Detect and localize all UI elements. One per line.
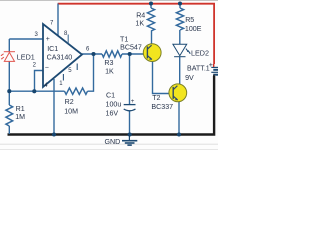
transistor Q2 BC337 (169, 84, 187, 102)
svg-text:+: + (46, 36, 50, 43)
svg-text:T2: T2 (152, 94, 160, 102)
wire output pin6 (82, 53, 102, 55)
label T2 (151, 94, 173, 111)
wire V+ top rail (red) (58, 4, 214, 64)
op-amp U1 CA3140 triangle (43, 24, 82, 87)
wire LED1 bottom to node (8, 61, 10, 91)
svg-text:LED1: LED1 (17, 53, 35, 62)
transistor Q1 BC547 (143, 44, 161, 62)
wire R3 to T1 base (122, 53, 147, 55)
label C1 value (106, 92, 122, 118)
svg-text:C1: C1 (106, 92, 115, 100)
resistor R1 (6, 105, 13, 126)
label R1 value (15, 105, 25, 121)
svg-text:+: + (131, 98, 135, 105)
capacitor C1 (124, 105, 136, 111)
wire C1 top (129, 54, 131, 104)
label R2 value (64, 98, 78, 116)
wire pin7 to V+ (57, 4, 59, 36)
wire T1 emitter to T2 base (153, 60, 173, 94)
svg-text:100E: 100E (185, 25, 202, 33)
wire node horizontal (pin2 node) (9, 90, 64, 92)
ground symbol (122, 135, 137, 145)
wire pin3 input (9, 38, 43, 40)
label R5 value (185, 16, 202, 33)
svg-text:R5: R5 (185, 16, 194, 24)
wire left vertical upper (pin3 to LED1) (8, 39, 10, 52)
wire R1 top (8, 91, 10, 105)
wire LED2 to T2 collector (179, 57, 181, 85)
node pin2 (32, 89, 36, 93)
svg-text:LED2: LED2 (191, 49, 209, 58)
svg-text:BC547: BC547 (120, 44, 142, 52)
svg-text:1K: 1K (135, 20, 144, 28)
node R5/V+ (178, 1, 182, 5)
label R3 value (104, 59, 114, 76)
svg-text:100u: 100u (106, 101, 122, 109)
wire R1 bottom to rail (8, 126, 10, 134)
svg-text:R1: R1 (16, 105, 25, 113)
svg-text:16V: 16V (106, 110, 119, 118)
svg-text:9V: 9V (185, 74, 194, 82)
wire pin4 to ground rail (53, 79, 55, 134)
wire pin2 stub (35, 71, 44, 92)
svg-text:−: − (45, 65, 49, 72)
node T2 emitter/rail (177, 132, 181, 136)
wire feedback vertical (88, 54, 94, 91)
resistor R3 (102, 51, 122, 57)
wire ground bottom rail (black) (8, 76, 215, 135)
svg-text:BATT.1: BATT.1 (187, 65, 210, 73)
svg-text:BC337: BC337 (151, 103, 173, 111)
wire R4 bottom to T1 collector (151, 31, 153, 44)
node pin4/rail (52, 132, 56, 136)
svg-text:IC1: IC1 (47, 45, 58, 53)
node R4/V+ (149, 1, 153, 5)
node C1/rail (128, 132, 132, 136)
svg-text:R3: R3 (104, 59, 113, 67)
wire C1 bottom to rail (129, 111, 131, 135)
wire T2 emitter to rail (178, 101, 180, 135)
node LED1/R1 (7, 89, 11, 93)
svg-text:T1: T1 (120, 36, 128, 44)
node output (91, 52, 95, 56)
node C1/base (128, 52, 132, 56)
svg-text:1K: 1K (105, 68, 114, 76)
svg-text:1M: 1M (15, 113, 25, 121)
wire R5 bottom to LED2 (179, 30, 181, 44)
svg-text:10M: 10M (64, 108, 78, 116)
LED1 (red) (1, 52, 15, 62)
label T1 (120, 36, 142, 52)
label R4 value (135, 11, 145, 27)
resistor R4 (147, 8, 154, 31)
svg-text:R4: R4 (136, 11, 145, 19)
battery BT1 (211, 64, 218, 78)
svg-text:R2: R2 (65, 98, 74, 106)
wire R4 top to rail (150, 4, 152, 9)
svg-text:CA3140: CA3140 (47, 54, 73, 62)
svg-text:GND: GND (105, 138, 121, 146)
label BATT.1 (185, 65, 210, 83)
resistor R2 (65, 88, 88, 94)
resistor R5 (176, 8, 183, 30)
wire R5 top to rail (179, 4, 181, 9)
LED2 (blue) (173, 44, 190, 56)
